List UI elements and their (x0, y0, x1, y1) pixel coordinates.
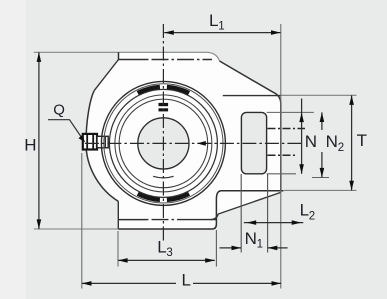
N2 bottom extension line (312, 177, 329, 179)
T top extension line (281, 94, 357, 96)
bearing circle R44.3 (119, 99, 208, 188)
small arrow on centerline pointing left (197, 141, 206, 146)
dimension N1 line (outside arrows) (220, 247, 288, 249)
housing silhouette (white body of take-up unit) (86, 52, 281, 229)
dimension L line (82, 282, 281, 284)
T bottom extension line (284, 189, 357, 191)
seal band bottom left (thick dark arc) (138, 194, 160, 200)
set screw shank end line (104, 136, 106, 148)
set screw head inner lines (87, 134, 93, 150)
bottom right chamfer diagonal (211, 192, 281, 219)
svg-text:T: T (357, 131, 367, 150)
svg-text:N: N (305, 132, 317, 151)
dimension L2 line (244, 222, 303, 224)
svg-text:L: L (209, 11, 218, 30)
svg-text:Q: Q (53, 102, 65, 119)
slot bottom edge extension line (N bottom) (267, 173, 296, 175)
svg-text:3: 3 (166, 247, 172, 259)
dimension H line (38, 52, 40, 229)
svg-text:1: 1 (218, 21, 224, 33)
base inner line solid left (118, 219, 146, 221)
seal band top left (thick dark arc) (138, 87, 160, 93)
top-left chamfer (94, 60, 118, 91)
set screw Q: head (83, 134, 97, 150)
bearing circle R48.5 (115, 95, 212, 192)
bolt hole centerline upper (dash-dot) (268, 128, 306, 130)
L3 right extension line (215, 230, 217, 267)
svg-text:2: 2 (309, 210, 315, 222)
bolt hole centerline lower (dash-dot) (268, 154, 298, 156)
base left vertical edge (117, 201, 119, 229)
dimension N line (301, 99, 303, 174)
vertical centerline (dash-dot) (162, 24, 164, 244)
left boss curve outline (86, 91, 118, 202)
svg-text:1: 1 (257, 238, 263, 250)
svg-text:L: L (182, 271, 191, 290)
guide plate top edge (223, 95, 281, 97)
svg-text:H: H (24, 136, 36, 155)
inner ring set screw bars (top, on vertical centerline) (159, 103, 169, 106)
bearing circle R54 (109, 89, 217, 197)
top inner edge dash-dot middle (146, 59, 212, 61)
dimension L3 line (118, 259, 215, 261)
top face line + H top extension line (34, 52, 220, 61)
seal band bottom right (thick dark arc) (167, 194, 189, 200)
L3 left extension line (117, 231, 119, 267)
slot top edge extension line (N top) (267, 111, 314, 113)
bearing circle R62 housing bore (101, 81, 225, 205)
top right chamfer diagonal and guide plate right edge (220, 61, 281, 191)
svg-text:L: L (157, 238, 166, 257)
inner ring bottom arc R34.5 (153, 176, 173, 178)
svg-text:L: L (300, 201, 309, 220)
L left extension line (81, 153, 83, 289)
dimension T line (351, 95, 353, 190)
right extension line L1/L (x=280.8 full) (280, 24, 282, 289)
bottom face of base + corner + right vertical + plate bottom edge (118, 191, 283, 229)
bearing circle R59.6 outer ring OD (104, 84, 223, 203)
base inner line solid right (184, 219, 216, 221)
Q leader arrowhead (79, 135, 86, 142)
guide plate slot (rounded slot hole) (241, 112, 266, 173)
svg-text:2: 2 (338, 142, 344, 154)
set screw shank (97, 136, 108, 148)
Q leader line with underline (48, 120, 83, 140)
base inner line dash-dot middle (146, 219, 184, 221)
horizontal centerline (dash-dot) (85, 142, 303, 144)
svg-text:N: N (245, 229, 257, 248)
H bottom extension line (34, 228, 119, 230)
top inner edge line solid part left (119, 52, 147, 59)
svg-text:N: N (326, 132, 338, 151)
bore circle shaft hole (138, 118, 189, 169)
left light margin strip (0, 0, 26, 299)
dimension L1 line (164, 32, 280, 34)
N1 right extension line (267, 174, 269, 253)
N1 left extension line (240, 174, 242, 253)
seal band top right (thick dark arc) (167, 87, 189, 93)
dimension N2 line (broken for label) (321, 112, 323, 177)
